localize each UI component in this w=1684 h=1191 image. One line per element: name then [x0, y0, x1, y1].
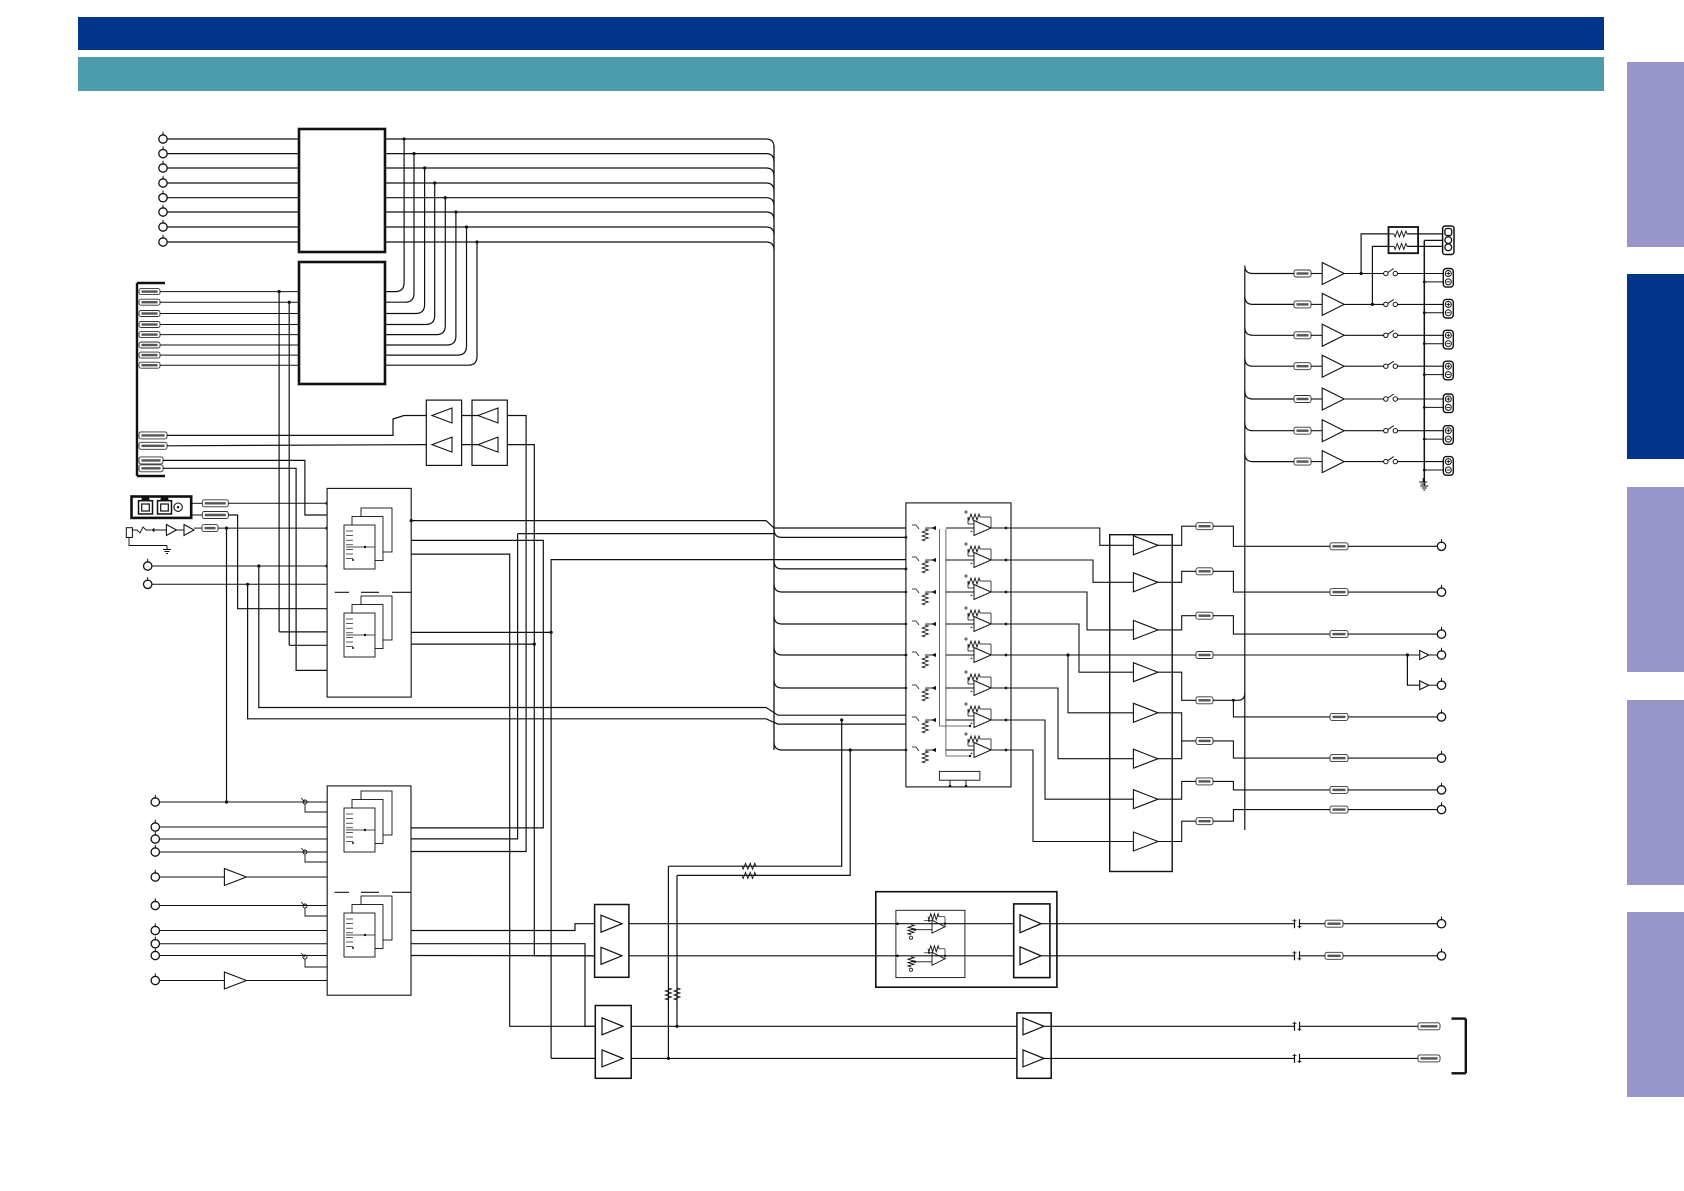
wire tap A down to mixer M1 [278, 290, 328, 632]
side tab 5 [1627, 912, 1684, 1097]
net label LESS_L wire down to mixer M1 [139, 457, 327, 515]
resistor network RN1 [1389, 227, 1444, 253]
side tab 4 [1627, 700, 1684, 885]
headphone amp bank U6 (8 buffers) [1110, 535, 1173, 872]
net labels IN-A..IN-H to U2 [139, 289, 299, 369]
DAC / volume IC U5 [906, 503, 1011, 787]
buffer bank B7 [1017, 1013, 1051, 1078]
buffer bank B5 [595, 905, 629, 978]
svg-text:+: + [970, 625, 973, 631]
wire U4 out1 down to mixer M2 [411, 416, 526, 852]
wire M1 out3 down riser to B6 [411, 554, 595, 1026]
wire J9 branch to DAC row7a [257, 564, 916, 724]
wire M1 out6 to riser [411, 643, 536, 646]
wires PA1,PA2 to RN1 [1360, 234, 1389, 306]
side tab 3 [1627, 487, 1684, 672]
wire M2 out6 to B5 in2 [411, 955, 595, 957]
ground symbol [1419, 478, 1427, 486]
wire M1 out1 to DAC row1 [410, 519, 906, 528]
svg-text:+: + [970, 656, 973, 662]
power amp channels PA1-PA7 [1245, 263, 1444, 473]
wire row C to bracket [631, 1022, 1440, 1031]
wire line B down to row C [674, 875, 680, 1028]
wire riser to DAC row2 [550, 560, 917, 1059]
wire tap B down to mixer M1 [288, 301, 328, 646]
IC U1 [299, 129, 385, 252]
DSP mixer block M1 [327, 488, 411, 697]
wires J1-J8 to U1 [168, 139, 300, 242]
buffer bank B6 [595, 1006, 631, 1079]
wire M1 out2 down riser [411, 540, 543, 828]
speaker return bus [1420, 240, 1428, 490]
net label MIC [202, 525, 329, 532]
wires U1 outputs to vertical bus [385, 139, 774, 250]
wires U3-U4 [462, 416, 478, 445]
speaker terminals with return bus taps [1423, 269, 1453, 476]
net label LESS_R wire to mixer M1 [139, 465, 327, 671]
svg-text:+: + [970, 561, 973, 567]
net label HDM_LESS_R wire to buffers [139, 442, 426, 449]
buffer bank U4 (2 inverters) [472, 400, 507, 465]
output jacks J21-J27 [1437, 539, 1446, 814]
wire MIC branch down to mixer M2 [225, 527, 228, 804]
net label TUNER_L [191, 500, 329, 507]
net label TUNER_R [191, 512, 327, 609]
IC U2 [299, 262, 385, 384]
net label HDM_LESS_L wire to buffers [139, 416, 426, 439]
left bracket (input group) [137, 283, 165, 476]
M2 mux select flags [301, 798, 327, 967]
USB connector CN1 [132, 497, 192, 518]
svg-text:+: + [970, 529, 973, 535]
microphone jack and preamps Q1,Q2 [126, 525, 202, 538]
header teal bar [78, 57, 1604, 91]
staircase wires U2 outputs onto bus [385, 137, 479, 365]
wire U5 row7 to resistor line A [668, 718, 843, 869]
wires U5 outputs to U6 inputs [1011, 528, 1133, 842]
wire U4 out2 down to buffer B5 [507, 445, 594, 956]
input jack connectors J1-J8 [159, 132, 167, 246]
svg-text:+: + [970, 721, 973, 727]
wire M2 out4 to B5 in1 [411, 924, 595, 931]
aux input jack J10 [144, 577, 328, 588]
wire monitor row5 split [1066, 652, 1407, 659]
headphone jacks J28,J29 with buffers [1406, 648, 1446, 690]
svg-text:+: + [970, 751, 973, 757]
wire riser row1b to bus [411, 528, 916, 839]
U5 channel op-amps rows 1-8 [912, 510, 1011, 763]
speaker-out bracket [1452, 1019, 1466, 1074]
wire row D to bracket [631, 1054, 1440, 1063]
side tab 1 [1627, 62, 1684, 247]
DSP mixer block M2 [327, 786, 411, 995]
aux input jack J9 [144, 559, 329, 570]
balanced line driver U7 [876, 892, 1057, 988]
U6 output wires with net labels [1158, 523, 1437, 842]
side tab 2 [1627, 274, 1684, 459]
mic ground return [129, 538, 171, 554]
bus fan-out wires to U5 inputs [774, 529, 907, 751]
svg-text:+: + [970, 689, 973, 695]
connector CN2 (3-pin) [1424, 226, 1454, 255]
svg-text:+: + [970, 593, 973, 599]
buffer bank U3 (2 inverters) [426, 400, 461, 465]
wire M2 out5 to B6 in1 [411, 944, 595, 1027]
wire J10 branch to DAC row7b [246, 583, 906, 724]
header navy bar [78, 17, 1604, 50]
wire row B to output jack [629, 949, 1446, 961]
wire line A down to row D [665, 866, 671, 1060]
wire row A to output jack [629, 917, 1446, 929]
wire M1 out5 to riser [411, 631, 551, 633]
speaker bus trunk [1244, 269, 1246, 830]
wire U5 row8 to resistor line B [677, 748, 852, 878]
line input jacks J11-J20 with preamps [151, 795, 327, 989]
bus vertical trunk [773, 146, 775, 750]
